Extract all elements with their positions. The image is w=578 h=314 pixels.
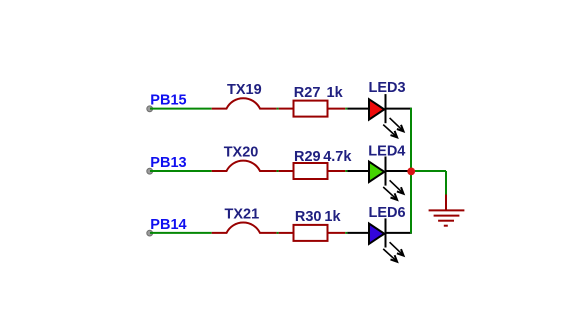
svg-text:PB13: PB13 (150, 155, 186, 171)
svg-text:R27: R27 (294, 85, 321, 101)
svg-text:PB14: PB14 (150, 217, 186, 233)
svg-text:1k: 1k (324, 209, 341, 225)
svg-text:LED4: LED4 (368, 143, 405, 159)
svg-text:TX19: TX19 (227, 82, 262, 98)
svg-text:R30: R30 (295, 209, 322, 225)
svg-text:R29: R29 (294, 149, 321, 165)
svg-text:4.7k: 4.7k (323, 149, 352, 165)
svg-text:LED3: LED3 (369, 80, 406, 96)
svg-text:TX20: TX20 (224, 145, 259, 161)
svg-text:TX21: TX21 (225, 207, 260, 223)
svg-text:PB15: PB15 (150, 93, 186, 109)
svg-text:LED6: LED6 (369, 205, 406, 221)
svg-text:1k: 1k (327, 85, 344, 101)
